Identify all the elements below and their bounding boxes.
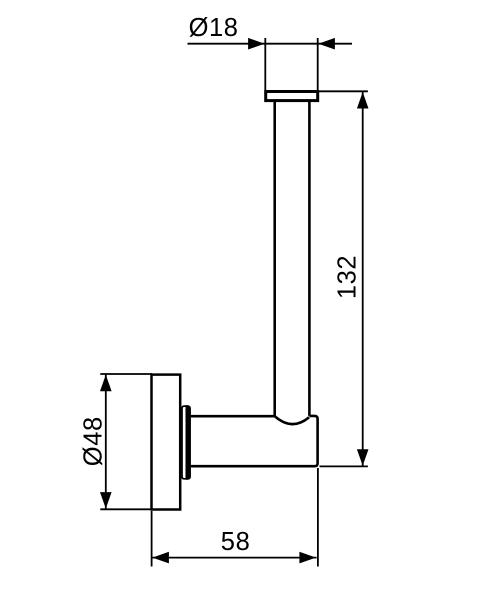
mounting flange heavy edge	[186, 405, 191, 479]
arrow 58 right	[299, 552, 316, 564]
dimension line 132	[362, 91, 364, 466]
arrow Ø48 up	[100, 375, 112, 392]
post left edge	[273, 101, 276, 416]
svg-text:58: 58	[221, 528, 251, 556]
mounting flange outline	[182, 406, 190, 479]
dimension line Ø18	[188, 43, 353, 45]
post right edge	[308, 101, 311, 416]
extension line Ø18 right	[317, 38, 319, 91]
extension line 58 left	[151, 511, 153, 567]
arrow Ø18 left	[248, 38, 265, 50]
top cap of spare-roll post	[266, 92, 318, 101]
svg-text:Ø18: Ø18	[189, 14, 239, 42]
arrow Ø48 down	[100, 492, 112, 509]
extension line Ø48 bottom	[100, 508, 152, 510]
arm right and bottom edges	[191, 416, 318, 466]
arrow 58 left	[152, 552, 169, 564]
svg-text:Ø48: Ø48	[79, 416, 107, 466]
dimension line Ø48	[105, 374, 107, 509]
extension line 58 right	[317, 468, 319, 567]
arrow 132 up	[357, 92, 369, 109]
wall plate	[152, 375, 181, 510]
extension line Ø48 top	[100, 373, 152, 375]
arm top edge	[191, 415, 275, 418]
svg-text:132: 132	[334, 255, 362, 299]
extension line 132 bottom	[320, 465, 368, 467]
extension line 132 top	[318, 90, 368, 92]
arrow 132 down	[357, 449, 369, 466]
arrow Ø18 right	[318, 38, 335, 50]
extension line Ø18 left	[264, 38, 266, 91]
post to arm fillet curve	[275, 416, 309, 424]
dimension line 58	[152, 557, 317, 559]
